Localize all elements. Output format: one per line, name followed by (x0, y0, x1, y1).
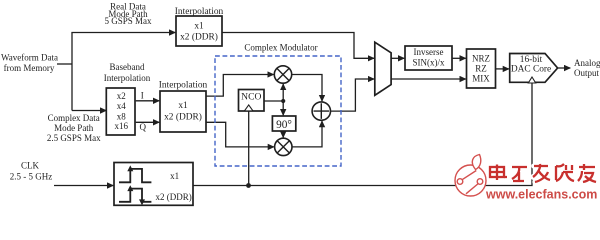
svg-text:x2: x2 (117, 91, 126, 101)
svg-text:x16: x16 (115, 121, 129, 131)
svg-text:x2 (DDR): x2 (DDR) (155, 192, 191, 202)
svg-text:MIX: MIX (472, 74, 490, 84)
svg-text:Invserse: Invserse (414, 47, 444, 57)
svg-text:Complex Modulator: Complex Modulator (244, 43, 317, 53)
svg-text:x1: x1 (170, 171, 179, 181)
svg-text:2.5 - 5 GHz: 2.5 - 5 GHz (10, 172, 53, 182)
svg-text:Mode Path: Mode Path (54, 123, 94, 133)
svg-text:Complex Data: Complex Data (48, 113, 100, 123)
svg-text:90°: 90° (276, 119, 292, 131)
svg-text:Interpolation: Interpolation (159, 80, 208, 90)
svg-text:Waveform Data: Waveform Data (1, 53, 58, 63)
svg-text:x8: x8 (117, 111, 127, 121)
svg-text:x1: x1 (194, 21, 204, 31)
svg-text:Q: Q (139, 122, 146, 132)
svg-text:CLK: CLK (21, 161, 40, 171)
svg-text:x4: x4 (117, 101, 127, 111)
svg-text:NCO: NCO (241, 91, 261, 102)
svg-text:RZ: RZ (475, 64, 487, 74)
svg-text:from Memory: from Memory (4, 63, 55, 73)
svg-text:x1: x1 (178, 101, 188, 111)
svg-text:DAC Core: DAC Core (511, 65, 551, 75)
svg-text:I: I (141, 90, 144, 100)
svg-text:x2 (DDR): x2 (DDR) (180, 32, 218, 43)
svg-text:5 GSPS Max: 5 GSPS Max (104, 16, 152, 26)
svg-text:16-bit: 16-bit (520, 55, 543, 65)
svg-text:2.5 GSPS Max: 2.5 GSPS Max (47, 133, 101, 143)
svg-text:SIN(x)/x: SIN(x)/x (413, 58, 445, 68)
svg-text:Output: Output (574, 68, 600, 78)
svg-text:Interpolation: Interpolation (104, 73, 151, 83)
svg-text:Analog: Analog (574, 58, 600, 68)
svg-text:www.elecfans.com: www.elecfans.com (485, 188, 597, 202)
svg-text:Interpolation: Interpolation (175, 7, 224, 17)
svg-text:Baseband: Baseband (110, 62, 145, 72)
svg-text:NRZ: NRZ (472, 54, 490, 64)
svg-text:x2 (DDR): x2 (DDR) (164, 112, 202, 123)
